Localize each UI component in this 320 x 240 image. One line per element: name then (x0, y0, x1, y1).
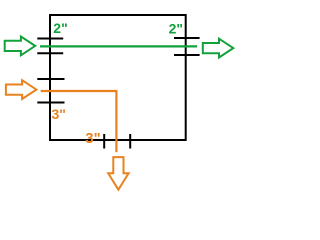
label 2" right (green) (169, 20, 183, 36)
wall penetration ticks, left wall, 3-inch pipe (37, 79, 64, 103)
svg-text:3": 3" (52, 106, 66, 122)
label 3" left (orange) (52, 106, 66, 122)
label 2" left (green) (53, 20, 67, 36)
wall penetration ticks, left wall, 2-inch pipe (37, 39, 63, 54)
svg-text:3": 3" (85, 130, 100, 147)
flow arrow left green (inlet) (5, 37, 36, 56)
flow arrow down orange (outlet through floor) (108, 157, 128, 190)
svg-text:2": 2" (53, 20, 67, 36)
flow arrow left orange (inlet) (6, 80, 37, 99)
svg-text:2": 2" (169, 20, 183, 36)
flow arrow right green (outlet) (203, 39, 234, 58)
wall penetration ticks, right wall, 2-inch pipe (174, 38, 200, 55)
label 3" bottom (orange) (85, 130, 100, 147)
pipe P2 3-inch orange line (horizontal + vertical drop) (41, 91, 117, 152)
room wall rectangle (50, 15, 186, 140)
wall penetration ticks, bottom wall, 3-inch pipe (104, 134, 130, 149)
pipe P1 2-inch green line (40, 45, 197, 47)
